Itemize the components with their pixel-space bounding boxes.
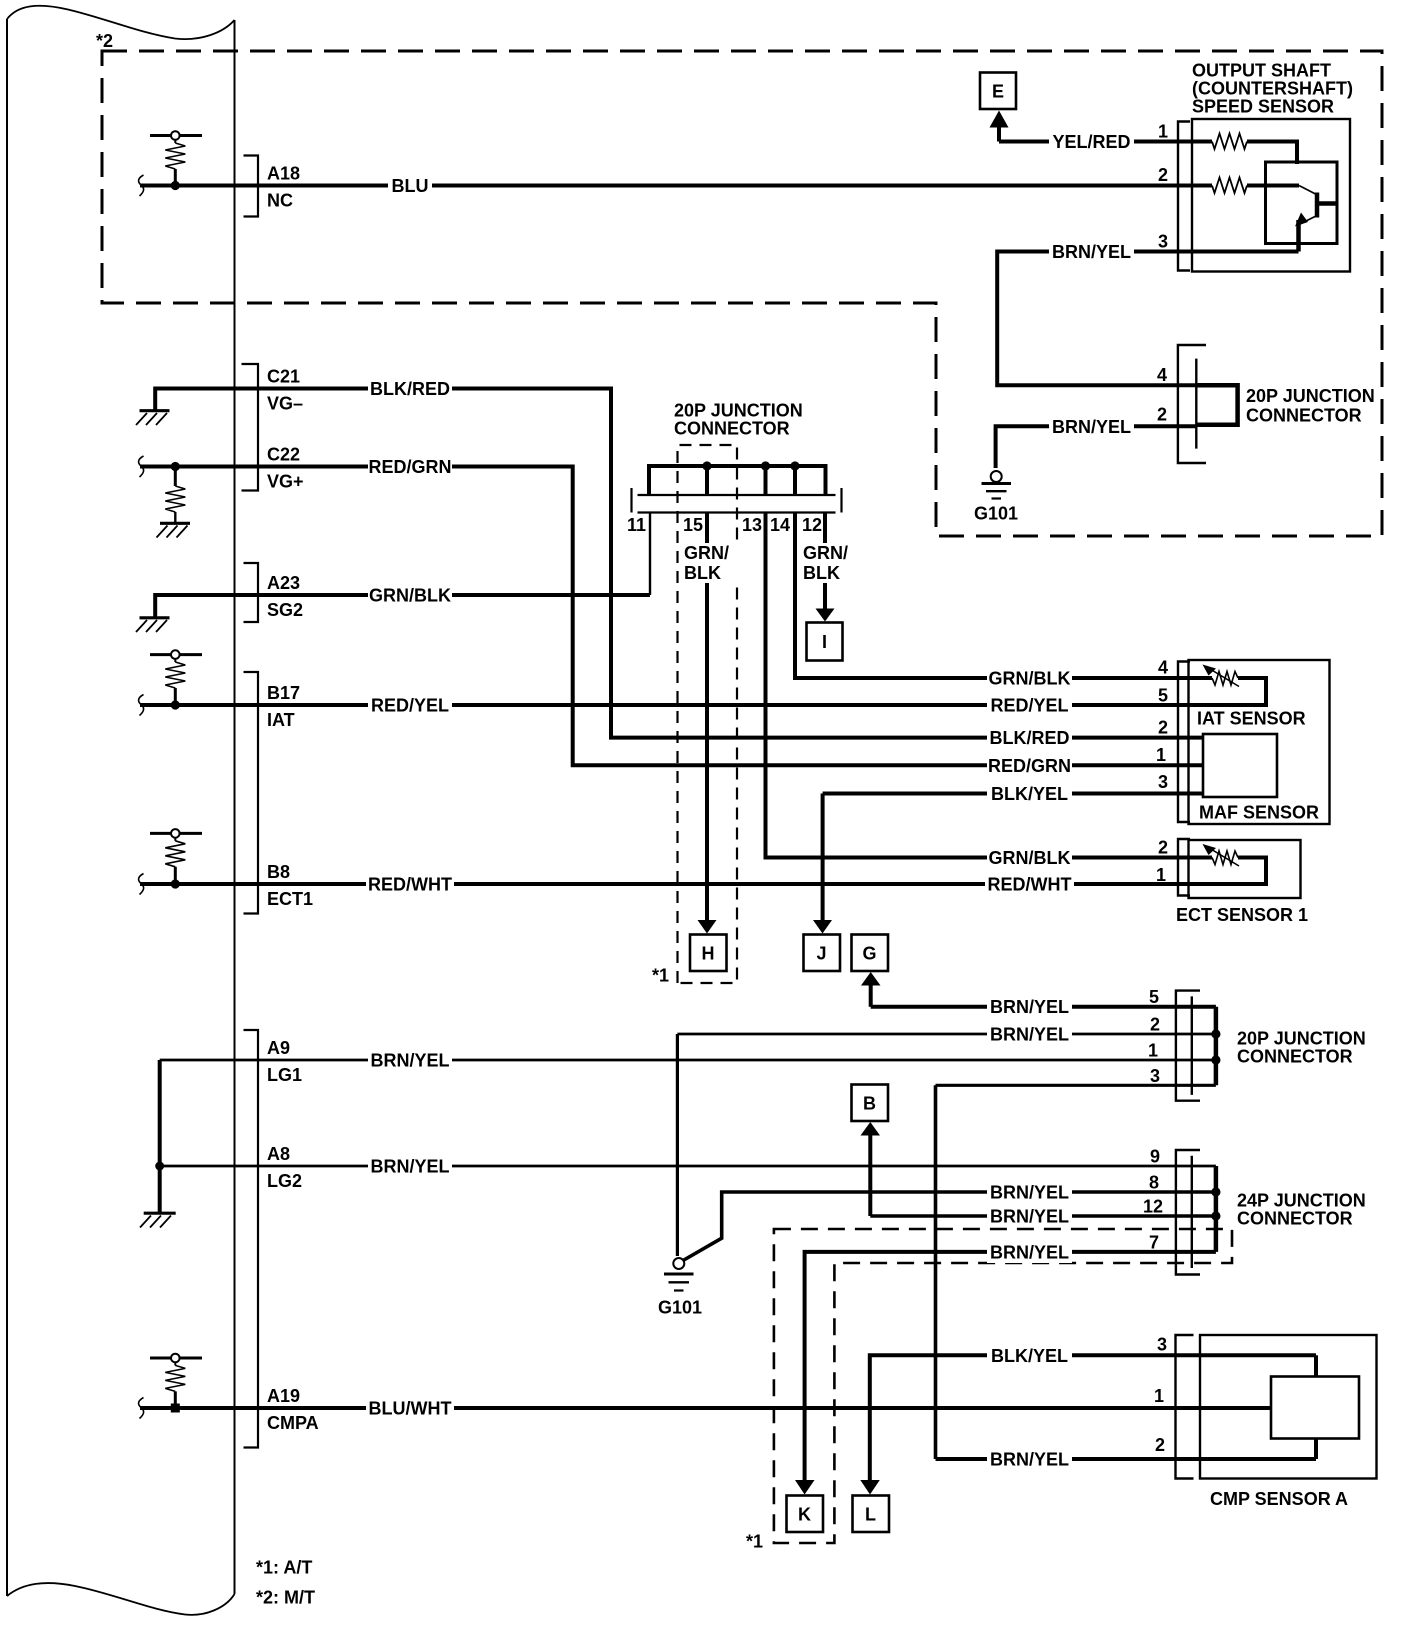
svg-text:GRN/: GRN/ [684, 543, 729, 563]
node C22 junction dot [171, 462, 180, 471]
box connector letter L [853, 1496, 890, 1533]
ECU band (torn page strip) [7, 6, 235, 1615]
svg-text:20P JUNCTION: 20P JUNCTION [674, 401, 803, 421]
label BRN/YEL 24P7 [987, 1241, 1072, 1263]
label pin C22 VG+ [267, 445, 304, 492]
svg-text:GRN/: GRN/ [803, 543, 848, 563]
svg-text:RED/YEL: RED/YEL [990, 696, 1068, 716]
svg-text:RED/GRN: RED/GRN [988, 756, 1071, 776]
label BRN/YEL 20P5 [987, 996, 1072, 1018]
wire C22 RED/GRN to MAF pin 1 [140, 467, 1203, 766]
label pin A9 LG1 [267, 1038, 302, 1085]
node 20P mid bus dot pin 1 [1211, 1055, 1220, 1064]
resistor pull-up at A19 [150, 1354, 202, 1408]
connector bracket ECT pins [1178, 839, 1190, 896]
thermistor IAT sensor [1210, 669, 1239, 687]
label YEL/RED [1049, 131, 1134, 153]
svg-text:A8: A8 [267, 1144, 290, 1164]
label 24P JUNCTION CONNECTOR [1237, 1191, 1366, 1229]
svg-text:BRN/YEL: BRN/YEL [990, 1025, 1069, 1045]
wire E arrow bend [997, 126, 1001, 142]
svg-text:7: 7 [1149, 1233, 1159, 1253]
box transistor inner outline [1266, 162, 1338, 244]
wire A9 ground drop to A8 junction [158, 1060, 162, 1213]
svg-text:12: 12 [1143, 1197, 1163, 1217]
wire junction bus with end bends (pins 11 and 12) [649, 466, 826, 496]
arrow up into G box [869, 984, 873, 1007]
dashed region *1 around H column [678, 445, 738, 983]
connector bracket A9/A8/A19 [244, 1030, 259, 1448]
label pin B8 ECT1 [267, 862, 313, 909]
wire ECU band top torn edge [7, 6, 235, 39]
wire 20P pin 3 row to CMP pin 2 riser [936, 1084, 1216, 1087]
arrow into I box [816, 609, 835, 622]
wire break squiggle at B8 [139, 874, 144, 895]
svg-text:20P JUNCTION: 20P JUNCTION [1237, 1029, 1366, 1049]
svg-text:RED/YEL: RED/YEL [371, 696, 449, 716]
svg-text:1: 1 [1154, 1386, 1164, 1406]
wire speed sensor pin 3 internal [1192, 250, 1299, 254]
label BLU [388, 175, 432, 197]
arrow into J box [813, 920, 832, 934]
svg-text:BRN/YEL: BRN/YEL [990, 997, 1069, 1017]
svg-text:A9: A9 [267, 1038, 290, 1058]
svg-text:2: 2 [1155, 1435, 1165, 1455]
wire A9 BRN/YEL to 20P junction pin 1 [160, 1059, 1216, 1062]
svg-text:BRN/YEL: BRN/YEL [990, 1183, 1069, 1203]
svg-text:B8: B8 [267, 862, 290, 882]
wire ECU band left edge [6, 19, 8, 1596]
svg-text:CONNECTOR: CONNECTOR [1246, 406, 1362, 426]
svg-text:BLU/WHT: BLU/WHT [369, 1399, 452, 1419]
wire break squiggle at A18 [139, 175, 144, 196]
wire IAT loop pin 4 to pin 5 [1192, 678, 1266, 705]
svg-text:CONNECTOR: CONNECTOR [1237, 1209, 1353, 1229]
label BLK/YEL MAF3 [987, 783, 1072, 805]
label BRN/YEL 24P8 [987, 1181, 1072, 1203]
svg-text:G101: G101 [974, 504, 1018, 524]
svg-text:RED/GRN: RED/GRN [368, 457, 451, 477]
svg-text:IAT: IAT [267, 710, 295, 730]
svg-text:BRN/YEL: BRN/YEL [990, 1207, 1069, 1227]
svg-text:2: 2 [1158, 838, 1168, 858]
wire CMP pin 2 internal rise [1314, 1439, 1318, 1460]
svg-text:2: 2 [1150, 1015, 1160, 1035]
wire 20P pin 5 BRN/YEL from G [871, 1005, 1216, 1009]
wire CMP pin 2 riser [934, 1085, 938, 1459]
wire bus stub pin 14 [793, 466, 797, 496]
svg-text:BLU: BLU [392, 176, 429, 196]
wire CMP pin 3 internal drop [1314, 1355, 1318, 1376]
svg-text:BLK/YEL: BLK/YEL [991, 1346, 1068, 1366]
wire CMP pin 1 internal [1200, 1406, 1271, 1410]
svg-text:3: 3 [1158, 232, 1168, 252]
arrow into H box [705, 908, 709, 921]
label BRN/YEL CMP2 [987, 1448, 1072, 1470]
ground G101 upper [982, 471, 1012, 499]
arrow transistor emitter [1295, 213, 1308, 227]
label GRN/BLK pin 15 column [680, 543, 740, 583]
svg-text:24P JUNCTION: 24P JUNCTION [1237, 1191, 1366, 1211]
label 20P JUNCTION CONNECTOR top right [1246, 386, 1375, 426]
box IAT/MAF sensor outline [1189, 660, 1330, 824]
box connector letter I [807, 623, 843, 661]
svg-text:G: G [862, 944, 876, 964]
node B17 junction dot [171, 700, 180, 709]
svg-text:BRN/YEL: BRN/YEL [990, 1450, 1069, 1470]
svg-text:E: E [992, 82, 1004, 102]
label BRN/YEL A8 [368, 1155, 452, 1177]
ground G101 lower [664, 1258, 694, 1291]
svg-text:CONNECTOR: CONNECTOR [1237, 1047, 1353, 1067]
connector bracket speed sensor pins [1178, 122, 1190, 271]
svg-text:GRN/BLK: GRN/BLK [369, 586, 451, 606]
svg-text:L: L [865, 1505, 876, 1525]
svg-text:VG–: VG– [267, 394, 303, 414]
svg-text:3: 3 [1158, 772, 1168, 792]
wire BRN/YEL 20P pin 2 to G101 [996, 426, 1197, 468]
label pin A19 CMPA [267, 1386, 319, 1433]
connector bracket 24P [1176, 1150, 1200, 1275]
svg-text:ECT1: ECT1 [267, 889, 313, 909]
svg-text:*2: M/T: *2: M/T [256, 1588, 315, 1608]
arrow up into B box [868, 1134, 872, 1216]
resistor speed sensor pin 2 [1192, 178, 1299, 194]
label RED/YEL IAT5 [987, 694, 1072, 716]
wire BLK/YEL drop from MAF pin 3 row down to J [821, 794, 825, 922]
svg-text:BLK/RED: BLK/RED [370, 379, 450, 399]
svg-text:5: 5 [1149, 987, 1159, 1007]
svg-text:YEL/RED: YEL/RED [1052, 132, 1130, 152]
connector bracket CMP pins [1176, 1335, 1194, 1479]
svg-text:11: 11 [627, 515, 646, 535]
wire 20P mid bus [1214, 1007, 1219, 1086]
box MAF inner outline [1203, 734, 1277, 797]
svg-text:BLK: BLK [803, 563, 840, 583]
box speed sensor outline [1192, 119, 1350, 272]
arrow into L box [860, 1480, 880, 1495]
svg-text:A19: A19 [267, 1386, 300, 1406]
svg-text:3: 3 [1157, 1335, 1167, 1355]
thermistor ECT sensor [1210, 849, 1239, 867]
svg-text:G101: G101 [658, 1298, 702, 1318]
wire 20P pin 2 BRN/YEL from G101 [677, 1033, 1216, 1036]
svg-text:(COUNTERSHAFT): (COUNTERSHAFT) [1192, 79, 1353, 99]
svg-text:K: K [798, 1505, 811, 1525]
wire bus stub pin 15 [705, 466, 709, 496]
svg-text:8: 8 [1149, 1173, 1159, 1193]
wire 24P pin 7 BRN/YEL down to K [805, 1252, 1216, 1481]
label RED/WHT B8 [366, 873, 454, 895]
node bus dot pin 13 [761, 461, 770, 470]
svg-text:BLK: BLK [684, 563, 721, 583]
wire CMP pin 2 BRN/YEL row [936, 1457, 1317, 1461]
svg-text:CMP SENSOR A: CMP SENSOR A [1210, 1489, 1348, 1509]
wire 20P top junction loop pins 4-2 [1196, 385, 1237, 425]
svg-text:1: 1 [1156, 865, 1166, 885]
wire A8 BRN/YEL to 24P junction pin 9 [160, 1165, 1216, 1168]
svg-text:*1: *1 [652, 966, 669, 986]
wire C21 BLK/RED to MAF pin 2 [155, 389, 1203, 738]
label BLK/RED MAF2 [987, 727, 1072, 749]
label BRN/YEL G101 top [1049, 416, 1134, 438]
node bus dot pin 15 [702, 461, 711, 470]
box connector letter B [852, 1085, 889, 1122]
wire collector feed into transistor box [1295, 142, 1299, 165]
svg-text:GRN/BLK: GRN/BLK [989, 848, 1071, 868]
svg-text:VG+: VG+ [267, 472, 304, 492]
box connector letter K [787, 1496, 824, 1533]
svg-text:LG1: LG1 [267, 1065, 302, 1085]
node A19 junction dot [171, 1404, 180, 1413]
label GRN/BLK IAT4 [987, 667, 1072, 689]
svg-text:12: 12 [802, 515, 822, 535]
svg-text:BRN/YEL: BRN/YEL [370, 1051, 449, 1071]
wire G101 drop from 20P pin 2 row [676, 1034, 679, 1256]
wire bus stub pin 13 [764, 466, 768, 496]
svg-text:4: 4 [1157, 365, 1167, 385]
label 20P JUNCTION CONNECTOR right mid [1237, 1029, 1366, 1067]
svg-text:CONNECTOR: CONNECTOR [674, 419, 790, 439]
ground chassis under A23 [136, 618, 170, 632]
svg-text:NC: NC [267, 191, 293, 211]
wire BLK/YEL row to MAF pin 3 [823, 792, 1203, 796]
svg-text:C21: C21 [267, 367, 300, 387]
svg-text:BRN/YEL: BRN/YEL [1052, 242, 1131, 262]
label BRN/YEL A9 [368, 1049, 452, 1071]
arrow IAT thermistor [1203, 665, 1217, 676]
wire pin 14 lead down to IAT GRN/BLK row [795, 513, 1212, 679]
svg-text:9: 9 [1150, 1147, 1160, 1167]
node A8/A9 ground junction [155, 1162, 164, 1171]
label RED/GRN MAF1 [987, 755, 1072, 777]
label GRN/BLK pin 12 column [799, 543, 855, 583]
svg-text:2: 2 [1158, 165, 1168, 185]
wire pin 11 lead down to A23 row [649, 513, 651, 596]
svg-text:4: 4 [1158, 658, 1168, 678]
svg-text:MAF SENSOR: MAF SENSOR [1199, 803, 1319, 823]
svg-text:B: B [863, 1094, 876, 1114]
wire B8 RED/WHT to ECT pin 1 [140, 882, 1192, 886]
svg-text:SPEED SENSOR: SPEED SENSOR [1192, 97, 1334, 117]
connector bracket IAT/MAF pins [1178, 662, 1190, 823]
svg-text:3: 3 [1150, 1066, 1160, 1086]
connector blade 20P mid [1191, 996, 1193, 1095]
svg-text:13: 13 [742, 515, 762, 535]
resistor pull-up at B17 [150, 650, 202, 705]
wire A18 BLU to speed sensor pin 2 [140, 184, 1192, 188]
arrow ECT thermistor [1203, 844, 1217, 855]
svg-text:15: 15 [683, 515, 703, 535]
svg-text:I: I [822, 632, 827, 652]
resistor pull-up at B8 [150, 829, 202, 884]
connector bracket C21/C22 [242, 364, 259, 491]
ground chassis under C21 [136, 411, 170, 425]
dashed region *1 around K column and 24P pin 7 wire [774, 1229, 1232, 1543]
svg-text:H: H [702, 944, 715, 964]
label BRN/YEL pin3 [1049, 241, 1134, 263]
label pin A18 NC [267, 164, 300, 211]
connector blade 24P [1191, 1156, 1193, 1268]
connector bracket 20P mid [1176, 991, 1200, 1101]
wire 24P bus [1214, 1166, 1219, 1252]
svg-text:CMPA: CMPA [267, 1413, 319, 1433]
wire pin 13 lead down to ECT GRN/BLK row [766, 513, 1213, 858]
label pin A8 LG2 [267, 1144, 302, 1191]
node bus dot pin 14 [790, 461, 799, 470]
node 24P bus dot pin 12 [1211, 1211, 1220, 1220]
wire ECU band bottom torn edge [7, 1583, 235, 1615]
wire BRN/YEL speed sensor pin 3 to 20P pin 4 [997, 252, 1196, 386]
node A18 junction dot [171, 181, 180, 190]
20P junction connector bar [632, 488, 842, 513]
node B8 junction dot [171, 879, 180, 888]
svg-text:SG2: SG2 [267, 600, 303, 620]
box connector letter H [690, 935, 727, 972]
svg-text:BRN/YEL: BRN/YEL [370, 1157, 449, 1177]
svg-text:RED/WHT: RED/WHT [368, 875, 452, 895]
svg-text:ECT SENSOR 1: ECT SENSOR 1 [1176, 905, 1308, 925]
svg-text:LG2: LG2 [267, 1171, 302, 1191]
svg-text:*2: *2 [96, 31, 113, 51]
label 20P JUNCTION CONNECTOR middle [674, 401, 803, 439]
wire break squiggle at A19 [139, 1398, 144, 1419]
svg-text:BRN/YEL: BRN/YEL [990, 1243, 1069, 1263]
box ECT sensor outline [1189, 840, 1301, 898]
connector bracket A18 [244, 156, 259, 217]
arrow into K box [795, 1480, 815, 1495]
label BLU/WHT A19 [366, 1397, 454, 1419]
svg-text:2: 2 [1157, 405, 1167, 425]
svg-text:GRN/BLK: GRN/BLK [989, 669, 1071, 689]
dashed region *2 (M/T option) [102, 51, 1382, 536]
svg-text:BLK/RED: BLK/RED [990, 728, 1070, 748]
ground chassis under A8/A9 [140, 1213, 176, 1227]
wire pin 15 GRN/BLK lead down to H [705, 513, 709, 922]
wire A19 BLU/WHT to CMP pin 1 [140, 1406, 1200, 1410]
label pin C21 VG- [267, 367, 303, 414]
resistor pull-up at A18 [150, 131, 202, 185]
label pin B17 IAT [267, 683, 300, 730]
svg-text:B17: B17 [267, 683, 300, 703]
svg-text:*1: *1 [746, 1532, 763, 1552]
svg-text:1: 1 [1156, 745, 1166, 765]
connector blade 20P top [1195, 359, 1197, 449]
svg-text:A18: A18 [267, 164, 300, 184]
node 24P bus dot pin 8 [1211, 1187, 1220, 1196]
arrow into E box [990, 111, 1009, 128]
label BRN/YEL 20P2 [987, 1023, 1072, 1045]
svg-text:RED/WHT: RED/WHT [988, 875, 1072, 895]
resistor speed sensor pin 1 [1192, 134, 1299, 150]
wire break squiggle at B17 [139, 695, 144, 716]
svg-text:*1: A/T: *1: A/T [256, 1558, 312, 1578]
wire YEL/RED speed sensor pin 1 [999, 140, 1192, 144]
svg-text:14: 14 [770, 515, 790, 535]
box CMP inner element [1271, 1377, 1359, 1439]
wire 24P pin 12 BRN/YEL from B [870, 1214, 1216, 1218]
resistor pull-down at C22 with ground [157, 467, 191, 538]
svg-text:2: 2 [1158, 718, 1168, 738]
label pin A23 SG2 [267, 573, 303, 620]
box connector letter E [980, 73, 1016, 110]
label OUTPUT SHAFT (COUNTERSHAFT) SPEED SENSOR [1192, 61, 1353, 117]
svg-text:BLK/YEL: BLK/YEL [991, 784, 1068, 804]
svg-text:OUTPUT SHAFT: OUTPUT SHAFT [1192, 61, 1331, 81]
svg-text:A23: A23 [267, 573, 300, 593]
svg-text:1: 1 [1148, 1041, 1158, 1061]
svg-text:J: J [816, 944, 826, 964]
wire B17 RED/YEL to IAT pin 5 [140, 703, 1192, 707]
connector bracket 20P top [1178, 345, 1206, 463]
label BLK/RED C21 [368, 378, 452, 400]
label RED/YEL B17 [368, 694, 452, 716]
label BRN/YEL 24P12 [987, 1205, 1072, 1227]
wire A23 GRN/BLK to junction pin 11 [155, 595, 650, 618]
svg-text:20P JUNCTION: 20P JUNCTION [1246, 386, 1375, 406]
wire pin 12 GRN/BLK lead down to I [823, 513, 827, 611]
wire ECT loop pin 2 to pin 1 [1192, 858, 1266, 885]
svg-text:BRN/YEL: BRN/YEL [1052, 417, 1131, 437]
label RED/GRN C22 [368, 456, 452, 478]
box connector letter J [804, 935, 841, 972]
wire ECU band right edge [234, 20, 236, 1594]
connector bracket B17/B8 [244, 672, 259, 914]
label RED/WHT ECT1 [985, 873, 1074, 895]
box CMP sensor outline [1200, 1335, 1377, 1479]
svg-text:5: 5 [1158, 686, 1168, 706]
label BLK/YEL CMP3 [987, 1345, 1072, 1367]
svg-text:IAT SENSOR: IAT SENSOR [1197, 709, 1306, 729]
box connector letter G [852, 935, 889, 972]
svg-text:1: 1 [1158, 122, 1168, 142]
label GRN/BLK A23 [368, 584, 452, 606]
transistor Q1 in speed sensor [1299, 186, 1338, 252]
svg-text:C22: C22 [267, 445, 300, 465]
connector bracket A23 [244, 563, 259, 622]
wire 24P pin 8 BRN/YEL with ground drop [683, 1192, 1216, 1261]
label GRN/BLK ECT2 [987, 847, 1072, 869]
wire BLK/YEL from CMP pin 3 down to L [870, 1355, 1316, 1481]
node 20P mid bus dot pin 2 [1211, 1029, 1220, 1038]
wire break squiggle at C22 [139, 456, 144, 477]
